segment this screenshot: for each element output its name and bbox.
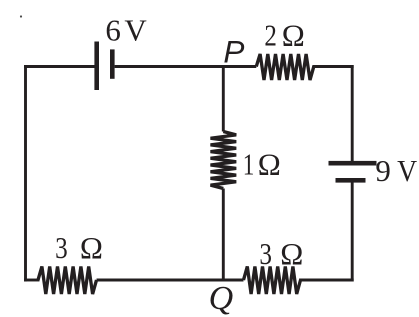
resistor R1 2ohm: [256, 54, 314, 80]
wire: left edge: [24, 67, 27, 281]
svg-text:2: 2: [264, 17, 277, 52]
svg-text:Ω: Ω: [280, 236, 303, 271]
wire: right edge upper: [351, 67, 354, 161]
battery B1 6V: long plate: [94, 42, 99, 91]
svg-text:9: 9: [375, 153, 391, 188]
svg-text:Q: Q: [209, 280, 234, 317]
wire: top-middle segment through node P: [115, 65, 257, 68]
wire: top-left segment: [26, 65, 95, 68]
wire: middle branch upper: [222, 67, 225, 132]
svg-text:1: 1: [243, 146, 255, 181]
battery B2 9V: short plate: [336, 178, 366, 183]
wire: middle branch lower: [222, 189, 225, 281]
svg-text:3: 3: [259, 236, 272, 271]
wire: bottom-middle segment through node Q: [97, 279, 244, 282]
battery B1 6V: short plate: [110, 49, 115, 78]
wire: bottom-right segment: [301, 279, 353, 282]
svg-text:3: 3: [55, 230, 68, 265]
stray dot (artifact): [20, 15, 22, 17]
svg-text:P: P: [223, 34, 244, 70]
battery B2 9V: long plate: [329, 161, 377, 166]
svg-text:V: V: [397, 153, 418, 188]
wire: top-right segment: [314, 65, 352, 68]
resistor R4 1ohm: [211, 132, 237, 189]
svg-text:Ω: Ω: [80, 230, 103, 265]
resistor R2 3ohm left: [38, 267, 97, 295]
svg-text:6: 6: [105, 12, 121, 47]
svg-text:V: V: [124, 12, 147, 47]
svg-text:Ω: Ω: [258, 146, 281, 181]
wire: bottom-left segment: [26, 279, 39, 282]
wire: right edge lower: [351, 183, 354, 280]
svg-text:Ω: Ω: [282, 17, 305, 52]
resistor R3 3ohm right: [244, 267, 301, 295]
